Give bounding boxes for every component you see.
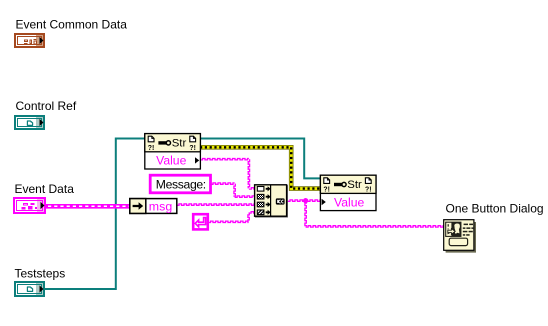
svg-text:?!: ?!: [365, 187, 372, 194]
wire junction dot: [303, 198, 308, 203]
terminal Event Common Data (cluster control): [14, 33, 45, 48]
constant end-of-line (carriage return): [193, 214, 208, 229]
wire Message constant to concat input 2: [211, 183, 235, 184]
svg-text:?!: ?!: [189, 145, 196, 152]
svg-text:Message:: Message:: [156, 178, 206, 192]
svg-text:Value: Value: [334, 195, 364, 209]
wire Value out of property node 1 to concat input 1: [200, 159, 249, 160]
svg-text:?!: ?!: [323, 187, 330, 194]
wire reference out of property node 1 to property node 2: [200, 139, 321, 179]
op node property node 1 (Str: Value read): [145, 134, 201, 169]
terminal Event Data (cluster, magenta): [13, 197, 46, 214]
wire end-of-line constant to concat input 4: [208, 221, 249, 222]
terminal Control Ref (control refnum): [14, 115, 45, 130]
svg-text:Str: Str: [347, 179, 362, 191]
svg-text:Teststeps: Teststeps: [15, 267, 66, 281]
svg-text:One Button Dialog: One Button Dialog: [446, 202, 544, 216]
svg-text:Control Ref: Control Ref: [16, 99, 77, 113]
op node unbundle-by-name msg: [130, 199, 177, 214]
wire error out of property node 1 to property node 2: [200, 147, 321, 188]
wire concat output to property node 2 Value input: [288, 200, 322, 201]
constant Message: string: [150, 175, 210, 193]
svg-text:Event Common Data: Event Common Data: [16, 18, 128, 32]
svg-text:Event Data: Event Data: [15, 182, 75, 196]
svg-text:msg: msg: [149, 199, 173, 213]
op node property node 2 (Str: Value write): [320, 175, 376, 210]
op node One Button Dialog: [446, 222, 476, 253]
svg-text:?!: ?!: [148, 145, 155, 152]
wire msg string to concat input 3: [177, 204, 256, 205]
wire Event Data cluster to unbundle msg: [46, 204, 130, 209]
wire branch to One Button Dialog: [305, 201, 306, 227]
svg-text:Value: Value: [156, 154, 186, 168]
svg-text:Str: Str: [172, 137, 187, 149]
terminal Teststeps (control refnum): [14, 281, 45, 297]
op node concatenate strings: [255, 186, 287, 217]
wire Teststeps refnum to property node 1: [45, 139, 146, 290]
